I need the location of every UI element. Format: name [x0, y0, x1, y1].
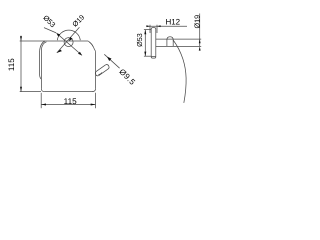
outer left edge: [40, 51, 42, 79]
hook curve: [173, 40, 186, 103]
svg-text:Ø19: Ø19: [192, 15, 201, 29]
H12 right arrow: [157, 25, 161, 27]
roller rod upper edge: [96, 65, 105, 72]
roller rod lower detail: [95, 71, 98, 75]
H12 left extension tick: [149, 25, 151, 33]
H12 left arrow: [146, 25, 150, 27]
mounting circle: [64, 38, 73, 47]
dia-19 lower arrow: [57, 50, 62, 53]
inner left edge: [40, 49, 42, 89]
svg-text:115: 115: [7, 58, 16, 71]
svg-text:H12: H12: [165, 18, 180, 27]
H12 dimension line: [146, 25, 187, 27]
top-left corner outer curve: [40, 41, 45, 51]
dia-53 side top arrow: [144, 30, 146, 35]
width dim right arrow: [91, 104, 96, 106]
roller rod end cap: [106, 65, 109, 70]
roller rod lower edge: [99, 69, 108, 76]
H12 right extension tick: [156, 25, 158, 33]
top edge + left extension: [20, 40, 89, 42]
dia-53 dimension line (side): [144, 30, 146, 57]
dia-53 side bottom arrow: [144, 52, 146, 57]
top-left corner inner curve: [41, 42, 46, 49]
top-right corner outer curve: [88, 41, 95, 53]
dia-19 side top arrow: [199, 39, 201, 43]
height dim top arrow: [20, 36, 22, 41]
bottom edge: [44, 91, 93, 93]
arm bottom edge + extension: [156, 45, 201, 47]
dia-19 side bottom arrow: [199, 46, 201, 50]
height dimension line: [20, 36, 22, 92]
dia-53 top extension: [144, 29, 151, 31]
wall plate: [151, 28, 156, 58]
dia-19 dimension diagonal: [57, 27, 80, 53]
roller rod inner detail: [98, 73, 102, 75]
dia-53 leader stub: [44, 28, 56, 33]
height dim bottom arrow: [20, 87, 22, 92]
arm top edge + extension: [156, 38, 201, 40]
dia-53 bottom extension: [144, 55, 151, 57]
bottom-right corner: [92, 88, 95, 91]
dia-19 upper arrow: [69, 37, 73, 41]
bottom extension of height dim: [20, 91, 41, 93]
svg-text:115: 115: [64, 97, 77, 106]
plate inner bottom line: [151, 56, 155, 58]
bottom-left corner: [41, 89, 44, 92]
dia-9.5 arrow: [107, 57, 112, 61]
dia-53 dimension diagonal: [58, 34, 82, 55]
dia-19 dimension line: [199, 14, 201, 47]
dia-53 lower arrow: [78, 52, 82, 56]
svg-text:Ø53: Ø53: [135, 33, 144, 47]
flange circle arc: [57, 30, 80, 40]
width dim right extension: [95, 93, 97, 108]
right edge: [95, 53, 97, 89]
width dimension line: [41, 104, 95, 106]
dia-53 upper arrow: [56, 33, 60, 37]
dia-9.5 leader line: [104, 54, 119, 68]
width dim left extension: [40, 93, 42, 108]
hinge knuckle dome: [167, 37, 173, 47]
top-right corner inner curve: [89, 42, 93, 47]
width dim left arrow: [41, 104, 46, 106]
